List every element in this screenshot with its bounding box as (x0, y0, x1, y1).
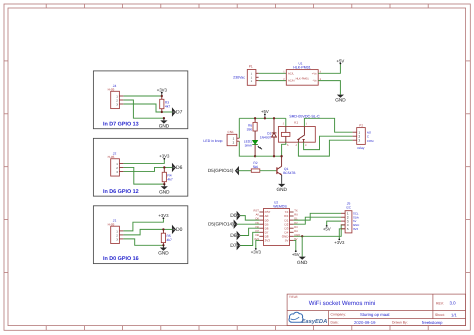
connector J5 I2C (345, 211, 352, 233)
relay contact lever (298, 135, 305, 139)
block boundary box 2 (93, 138, 187, 196)
svg-text:D7: D7 (176, 110, 183, 116)
net flag D7 (172, 109, 175, 116)
svg-text:+3V3: +3V3 (158, 213, 169, 218)
wire J2.3 to D6 row (123, 167, 164, 171)
svg-text:3V3: 3V3 (353, 227, 358, 231)
resistor R2 5k6 (251, 169, 259, 172)
svg-text:D0: D0 (176, 227, 183, 233)
connector J4 H-05 (111, 91, 120, 108)
right margin zone ticks (466, 61, 471, 273)
svg-text:TX: TX (294, 210, 298, 213)
power flag +5V (326, 225, 328, 227)
svg-text:RST: RST (254, 210, 260, 213)
svg-text:3V3: 3V3 (265, 239, 271, 243)
svg-text:C: C (367, 134, 369, 138)
U2 pin numbers right outside (294, 210, 300, 241)
+5V rail wire (239, 117, 285, 119)
svg-text:2020-09-19: 2020-09-19 (354, 320, 376, 325)
wire D0 flag to U2.D0 (241, 216, 260, 221)
U2 pin numbers left outside (254, 210, 260, 241)
svg-text:Sheet:: Sheet: (435, 313, 445, 317)
P1 pin 2 stub (256, 76, 259, 78)
connector P2 relay (357, 128, 366, 145)
svg-text:relay: relay (357, 146, 364, 150)
P1 pin 1 stub (256, 72, 259, 74)
svg-text:GND: GND (276, 187, 287, 192)
resistor R6 390 (254, 117, 256, 119)
EasyEDA logo (289, 312, 327, 325)
node junction coil/collector/row (280, 155, 282, 157)
top margin zone ticks (46, 4, 428, 8)
svg-text:I2C: I2C (346, 206, 352, 210)
svg-text:D6: D6 (230, 233, 237, 239)
J2 pin 1 stub (119, 162, 123, 164)
AC-DC module U1 HLK-PM01 (286, 70, 318, 86)
node junction GND (301, 235, 303, 237)
ground (299, 257, 306, 260)
svg-text:D5(GPIO14): D5(GPIO14) (208, 168, 234, 173)
block boundary box 1 (93, 71, 187, 129)
transistor Q1 BC547B (276, 167, 278, 174)
node junction R3/D7 (161, 111, 163, 113)
svg-text:D5(GPIO14): D5(GPIO14) (208, 222, 234, 227)
wire J2.2 to GND row (123, 167, 164, 184)
svg-text:EasyEDA: EasyEDA (302, 319, 328, 325)
ground (163, 184, 165, 186)
svg-text:In D0 GPIO 16: In D0 GPIO 16 (103, 256, 139, 262)
wire J4.3 to D7 row (123, 104, 161, 112)
node junction R5/GND (162, 244, 164, 246)
svg-text:-Vo: -Vo (312, 80, 317, 83)
wire P1.1 to U1 AC/L (259, 72, 287, 74)
svg-text:+3V3: +3V3 (159, 154, 170, 159)
svg-text:H-05: H-05 (108, 88, 115, 92)
svg-text:K1: K1 (294, 120, 298, 124)
J1 pin 3 stub (119, 238, 123, 240)
svg-text:Date:: Date: (331, 321, 339, 325)
svg-text:A0: A0 (256, 214, 260, 217)
wire D5 flag to U2.D5 (238, 223, 260, 225)
svg-text:D6: D6 (176, 165, 183, 171)
node junction D1/row (273, 155, 275, 157)
svg-text:1/1: 1/1 (451, 313, 457, 318)
svg-text:+5V: +5V (323, 227, 331, 232)
svg-text:H-05: H-05 (108, 223, 115, 227)
svg-text:P1: P1 (249, 64, 253, 68)
svg-text:REV:: REV: (436, 301, 444, 305)
J2 pin 2 stub (119, 166, 123, 168)
wire CN1.2 down to LED row (239, 141, 255, 156)
wire D6 row to flag (164, 166, 172, 168)
U2 pin names left (265, 210, 271, 242)
svg-text:BC547B: BC547B (283, 171, 296, 175)
svg-text:Sturing op maat: Sturing op maat (360, 312, 390, 317)
power flag +3V3 (255, 248, 257, 250)
wire LED cathode to row (254, 145, 256, 157)
block boundary box 3 (93, 206, 187, 264)
LED LED1 3mm (252, 140, 258, 144)
wire D0 row to J1.2 (123, 229, 163, 235)
svg-text:4k7: 4k7 (167, 177, 172, 181)
wire U2.3V3 to +3V3 (256, 240, 260, 248)
wire flag to R2 (239, 170, 252, 172)
ground (163, 117, 165, 119)
svg-text:AC/L: AC/L (288, 72, 294, 75)
diode D1 1N4007 (273, 117, 275, 119)
wire emitter to GND (281, 175, 283, 184)
svg-text:WEMOS: WEMOS (273, 205, 287, 209)
svg-text:HLK-PM01: HLK-PM01 (293, 66, 311, 70)
svg-text:WiFi socket Wemos mini: WiFi socket Wemos mini (309, 300, 376, 307)
relay coil (281, 132, 290, 136)
U2 pin names right (282, 210, 290, 242)
resistor R4 4k7 (163, 167, 165, 172)
connector J2 H-05 (111, 159, 120, 176)
wire +3V3 to J1.1 (123, 219, 163, 231)
wire U2.5V to +5V (294, 240, 296, 250)
wire J5.5V to +5V (327, 221, 341, 225)
svg-text:In D6 GPIO 12: In D6 GPIO 12 (103, 189, 139, 195)
CN1 pin 2 stub (237, 140, 240, 142)
svg-text:P2: P2 (359, 123, 363, 127)
wire NO to P2.2 (304, 136, 353, 149)
connector P1 (247, 70, 256, 86)
wire D6 flag to U2.D6 (241, 228, 260, 235)
U2 right pin stubs (290, 212, 294, 240)
svg-text:5V: 5V (285, 239, 289, 243)
svg-text:1N4007: 1N4007 (260, 135, 272, 139)
svg-text:3mm: 3mm (245, 143, 253, 147)
wire J2.1 to +3V3 (123, 160, 164, 164)
power flag +5V (264, 115, 266, 118)
svg-text:GND: GND (158, 251, 169, 256)
svg-text:230Vac: 230Vac (233, 76, 245, 80)
wire J1.3 to GND row (123, 239, 163, 245)
wire NC to P2.3 (298, 140, 352, 156)
wire P1.3 to U1 AC/N (259, 80, 287, 82)
node junction LED/row (254, 155, 256, 157)
svg-text:In D7 GPIO 13: In D7 GPIO 13 (103, 121, 139, 127)
svg-text:HLK-PM01: HLK-PM01 (296, 77, 310, 80)
node junction D0/R5 (162, 228, 164, 230)
resistor R5 4k7 (162, 229, 164, 233)
svg-text:GND: GND (335, 98, 346, 103)
svg-text:GND: GND (297, 260, 308, 265)
J4 pin 3 stub (119, 103, 123, 105)
ground (278, 184, 285, 187)
svg-text:H-05: H-05 (108, 155, 115, 159)
collector row wire (255, 155, 282, 157)
power flag +5V (340, 63, 342, 65)
connector J1 H-05 (111, 226, 120, 243)
svg-text:TITLE:: TITLE: (289, 295, 298, 299)
svg-text:Drawn By:: Drawn By: (392, 321, 408, 325)
node junction +3V3/R3 (161, 95, 163, 97)
wire J4.1 to +3V3 rail (123, 95, 161, 97)
wire collector pin (281, 156, 283, 166)
svg-text:D8: D8 (255, 234, 259, 237)
wire common to P2.1 (304, 118, 352, 132)
relay contact common (303, 127, 305, 135)
wire coil- to collector node (282, 142, 286, 156)
svg-text:Company:: Company: (331, 313, 347, 317)
svg-text:COM: COM (367, 139, 374, 143)
wire node to ground (301, 236, 303, 256)
module U2 WEMOS (264, 209, 290, 246)
svg-text:+5V: +5V (261, 109, 269, 114)
svg-text:+5V: +5V (337, 58, 345, 63)
svg-text:3.0: 3.0 (450, 301, 457, 306)
left margin zone ticks (4, 61, 8, 273)
svg-text:390: 390 (247, 127, 253, 131)
wire D7 row to flag (162, 111, 173, 113)
net flag D6 (172, 164, 175, 171)
resistor R3 4k7 (161, 96, 163, 99)
net flag D0 (172, 226, 175, 233)
power flag +3V3 (163, 217, 165, 219)
svg-text:freekslomp: freekslomp (422, 320, 443, 325)
relay K1 SRD-05VDC-SL-C (278, 127, 315, 143)
bottom margin zone ticks (46, 326, 428, 331)
power flag +3V3 (161, 93, 163, 96)
power flag +5V (295, 250, 297, 252)
wire U2.D1 to J5.SCL (294, 213, 341, 220)
J4 pin 1 stub (119, 95, 123, 97)
wire U2.D2 to J5.SDA (294, 217, 341, 224)
J1 pin 1 stub (119, 230, 123, 232)
svg-text:5k6: 5k6 (253, 165, 258, 169)
relay NC contact (297, 139, 299, 141)
node junction R4/GND (163, 183, 165, 185)
relay NO contact (303, 139, 305, 141)
svg-text:GND: GND (159, 123, 170, 128)
svg-text:LED in knop: LED in knop (203, 139, 222, 143)
wire J5.3V3 to +3V3 (339, 229, 345, 239)
svg-text:D7: D7 (230, 243, 237, 249)
J1 pin 2 stub (119, 234, 123, 236)
svg-text:+3V3: +3V3 (157, 87, 168, 92)
ground (337, 95, 344, 98)
connector CN1 (227, 134, 237, 145)
wire J4.2 to GND row (123, 100, 163, 118)
svg-text:D0: D0 (230, 213, 237, 219)
svg-text:RX: RX (294, 214, 298, 217)
J4 pin 2 stub (119, 99, 123, 101)
svg-text:D4: D4 (294, 230, 298, 233)
svg-text:+3V3: +3V3 (334, 240, 345, 245)
wire U2.GND to J5.GND (294, 225, 346, 236)
power flag +3V3 (338, 239, 340, 241)
svg-text:CN1: CN1 (228, 130, 234, 134)
svg-text:AC/N: AC/N (288, 80, 294, 83)
svg-text:D3: D3 (294, 226, 298, 229)
wire rail down to CN1.1 (238, 118, 240, 138)
CN1 pin 1 stub (237, 137, 240, 139)
power flag +3V3 (163, 158, 165, 160)
wire D0 row to flag (163, 228, 172, 230)
J2 pin 3 stub (119, 170, 123, 172)
ground (162, 245, 164, 247)
svg-text:+5V: +5V (292, 252, 300, 257)
svg-text:GND: GND (159, 189, 170, 194)
svg-text:4k7: 4k7 (165, 104, 170, 108)
wire U1 +Vo to +5V (318, 64, 340, 73)
wire R2 to Q1 base (260, 170, 277, 172)
svg-text:4k7: 4k7 (167, 238, 172, 242)
U2 left pin stubs (259, 212, 263, 240)
node junction D6/R4 (163, 166, 165, 168)
wire coil+ to rail (285, 118, 287, 126)
P1 pin 3 stub (256, 80, 259, 82)
title block (287, 294, 466, 326)
svg-text:+Vo: +Vo (312, 72, 317, 75)
wire D7 flag to U2.D7 (241, 232, 260, 245)
wire U1 -Vo to GND (318, 81, 340, 95)
svg-text:+3V3: +3V3 (251, 250, 262, 255)
